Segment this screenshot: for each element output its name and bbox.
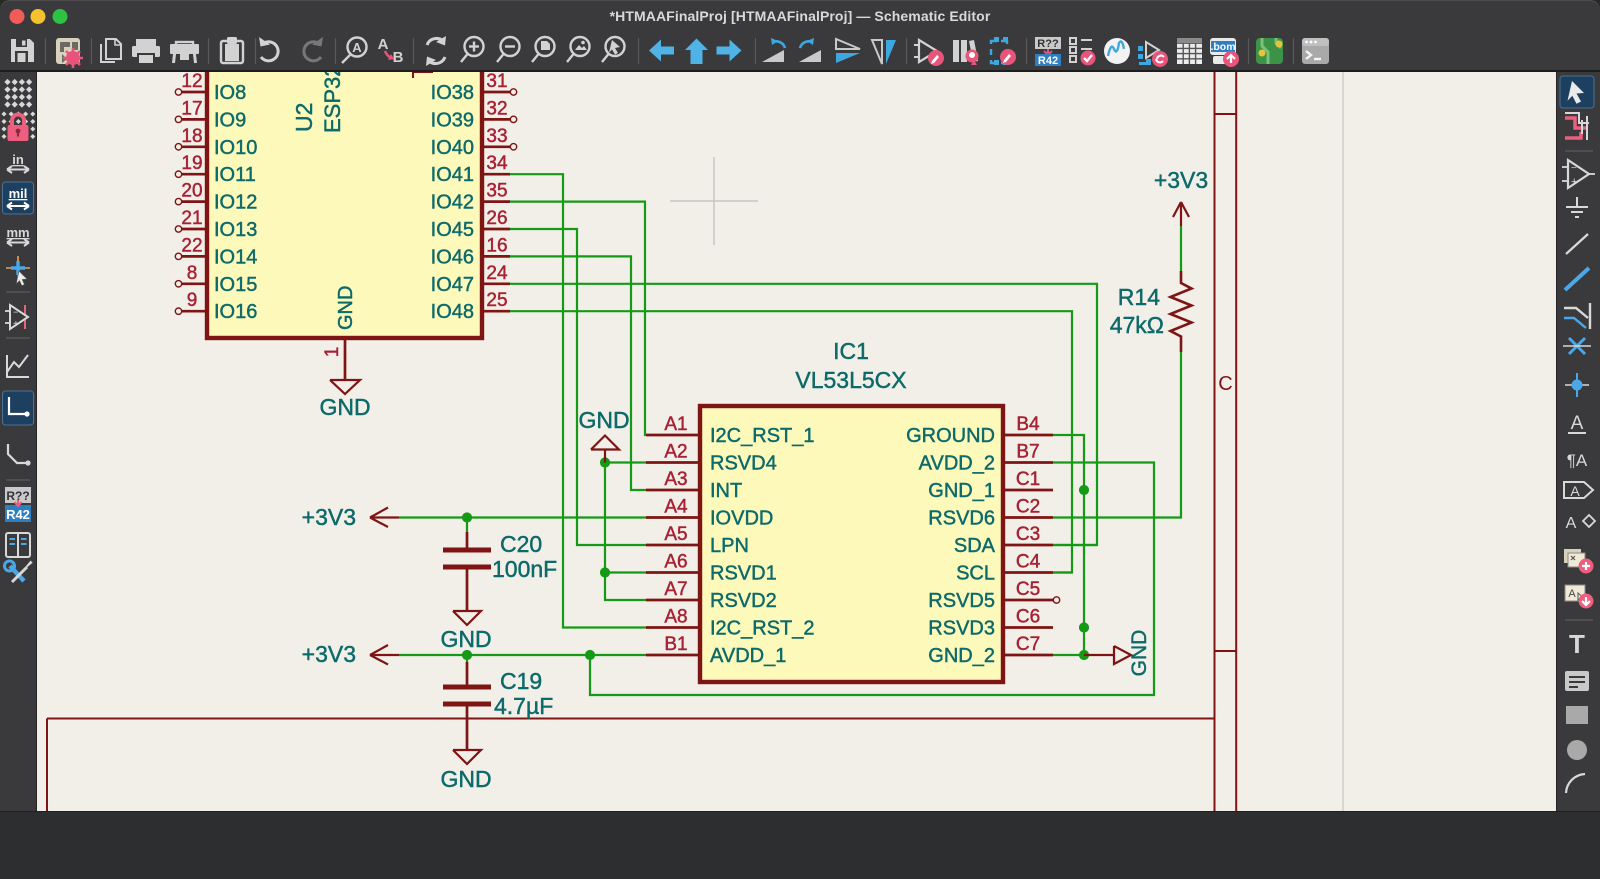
wire RSVD4 stub — [605, 461, 646, 463]
svg-text:A: A — [1566, 515, 1577, 532]
right toolbar — [1556, 72, 1600, 811]
paper right edge — [1342, 72, 1344, 811]
svg-text:GROUND: GROUND — [906, 425, 995, 447]
IC1 left pin A6 RSVD1 — [646, 571, 700, 574]
wire SDA stub — [1053, 544, 1097, 546]
U2 left pin 20 IO12 — [182, 200, 207, 203]
svg-text:RSVD4: RSVD4 — [710, 453, 777, 475]
svg-text:+: + — [1571, 176, 1577, 188]
svg-text:IO45: IO45 — [431, 219, 474, 241]
wire C20 top — [466, 518, 468, 533]
svg-text:IO39: IO39 — [431, 109, 474, 131]
svg-text:mil: mil — [9, 186, 28, 201]
wire junction — [1079, 650, 1089, 660]
svg-text:31: 31 — [486, 72, 507, 92]
svg-text:B: B — [393, 49, 404, 66]
svg-text:R??: R?? — [1037, 38, 1059, 50]
crosshair cursor — [670, 200, 758, 202]
svg-text:mm: mm — [6, 225, 29, 240]
wire junction — [1079, 485, 1089, 495]
svg-text:LPN: LPN — [710, 535, 749, 557]
svg-text:C1: C1 — [1016, 469, 1040, 490]
wire junction — [600, 457, 610, 467]
wire junction — [462, 650, 472, 660]
svg-text:IO40: IO40 — [431, 137, 474, 159]
IC1 right pin C6 RSVD3 — [1003, 626, 1053, 629]
svg-text:IO47: IO47 — [431, 274, 474, 296]
svg-text:C20: C20 — [500, 531, 542, 557]
wire SCL stub — [1053, 571, 1072, 573]
U2 partial pin artifact top — [412, 70, 433, 78]
svg-text:R14: R14 — [1118, 284, 1160, 310]
svg-text:ESP32: ESP32 — [320, 72, 345, 133]
svg-text:T: T — [1569, 629, 1585, 659]
svg-text:19: 19 — [181, 153, 202, 174]
svg-text:U2: U2 — [291, 103, 317, 132]
svg-text:C3: C3 — [1016, 524, 1040, 545]
svg-text:AVDD_1: AVDD_1 — [710, 645, 786, 667]
svg-text:IO9: IO9 — [214, 109, 246, 131]
wire GROUND vertical — [1053, 435, 1084, 655]
svg-text:100nF: 100nF — [492, 556, 557, 582]
wire junction — [1079, 622, 1089, 632]
U2 right pin 31 IO38 — [482, 91, 510, 94]
svg-text:A: A — [378, 36, 389, 53]
svg-text:RSVD1: RSVD1 — [710, 563, 777, 585]
wire IO48 to SCL — [510, 311, 1072, 572]
U2 left pin 9 IO16 — [182, 310, 207, 313]
svg-text:8: 8 — [187, 263, 198, 284]
wire IO47 to SDA — [510, 284, 1097, 545]
svg-text:C7: C7 — [1016, 634, 1040, 655]
svg-text:GND: GND — [1128, 630, 1151, 677]
svg-text:GND: GND — [578, 407, 629, 433]
IC1 right pin C5 RSVD5 — [1003, 599, 1053, 602]
IC1 right pin C7 GND_2 — [1003, 654, 1053, 657]
power +3V3 (left, IOVDD) — [370, 508, 399, 528]
svg-text:¶A: ¶A — [1567, 451, 1588, 470]
svg-text:C2: C2 — [1016, 497, 1040, 518]
svg-text:GND: GND — [335, 286, 357, 330]
capacitor C19 4.7uF — [466, 662, 469, 685]
IC1 right pin B4 GROUND — [1003, 434, 1053, 437]
IC1 left pin A7 RSVD2 — [646, 599, 700, 602]
svg-text:A2: A2 — [664, 442, 687, 463]
IC1 left pin B1 AVDD_1 — [646, 654, 700, 657]
svg-text:A4: A4 — [664, 497, 688, 518]
svg-text:32: 32 — [486, 98, 507, 119]
svg-text:C19: C19 — [500, 668, 542, 694]
power +3V3 (left, AVDD_1) — [370, 645, 399, 665]
left toolbar — [0, 72, 37, 811]
svg-text:20: 20 — [181, 181, 202, 202]
IC1 right pin C1 GND_1 — [1003, 489, 1053, 492]
svg-text:IO41: IO41 — [431, 164, 474, 186]
svg-text:A: A — [1570, 483, 1580, 499]
svg-text:22: 22 — [181, 235, 202, 256]
svg-text:IO48: IO48 — [431, 301, 474, 323]
svg-text:IO8: IO8 — [214, 82, 246, 104]
wire IO42 to I2C_RST_1 — [510, 202, 646, 435]
U2 left pin 18 IO10 — [182, 145, 207, 148]
svg-text:GND_2: GND_2 — [928, 645, 995, 667]
svg-text:IOVDD: IOVDD — [710, 508, 773, 530]
U2 right pin 33 IO40 — [482, 145, 510, 148]
sheet frame bottom border — [47, 718, 1215, 720]
svg-text:A: A — [1568, 588, 1576, 600]
power GND (right of C7) — [1084, 654, 1114, 656]
svg-text:C6: C6 — [1016, 607, 1040, 628]
svg-text:47kΩ: 47kΩ — [1110, 312, 1164, 338]
svg-text:RSVD5: RSVD5 — [928, 590, 995, 612]
svg-text:−: − — [1571, 163, 1577, 174]
svg-text:C4: C4 — [1016, 552, 1041, 573]
svg-text:1: 1 — [322, 347, 343, 358]
svg-text:C: C — [1218, 373, 1232, 395]
IC1 left pin A1 I2C_RST_1 — [646, 434, 700, 437]
U2 left pin 22 IO14 — [182, 255, 207, 258]
U2 right pin 25 IO48 — [482, 310, 510, 313]
wire junction — [600, 567, 610, 577]
resistor R14 47kOhm — [1171, 271, 1192, 352]
svg-text:IO14: IO14 — [214, 246, 257, 268]
top toolbar — [0, 32, 1600, 72]
svg-text:R42: R42 — [6, 507, 30, 522]
svg-text:GND: GND — [440, 626, 491, 652]
svg-text:RSVD2: RSVD2 — [710, 590, 777, 612]
svg-text:A6: A6 — [664, 552, 687, 573]
svg-text:in: in — [12, 152, 24, 167]
svg-text:R42: R42 — [1038, 55, 1058, 67]
title bar — [0, 0, 1600, 32]
IC1 right pin C4 SCL — [1003, 571, 1053, 574]
svg-text:AVDD_2: AVDD_2 — [919, 453, 995, 475]
svg-text:GND_1: GND_1 — [928, 480, 995, 502]
svg-text:IO10: IO10 — [214, 137, 257, 159]
ground symbol below C19 — [453, 750, 481, 764]
wire +3V3 to AVDD_1 — [399, 654, 646, 656]
svg-text:A: A — [1571, 413, 1584, 434]
svg-text:GND: GND — [440, 766, 491, 792]
svg-text:25: 25 — [486, 290, 507, 311]
sheet frame left border — [46, 719, 48, 812]
wire RSVD1 stub — [605, 571, 646, 573]
svg-text:C5: C5 — [1016, 579, 1040, 600]
svg-text:A1: A1 — [664, 414, 687, 435]
IC1 left pin A8 I2C_RST_2 — [646, 626, 700, 629]
svg-text:A: A — [352, 40, 362, 55]
svg-text:IO12: IO12 — [214, 192, 257, 214]
U2 right pin 26 IO45 — [482, 228, 510, 231]
svg-text:IO46: IO46 — [431, 246, 474, 268]
symbol U2 body — [207, 52, 482, 338]
svg-text:−: − — [13, 307, 18, 317]
svg-text:IO16: IO16 — [214, 301, 257, 323]
wire RSVD6 to R14 — [1053, 352, 1181, 518]
schematic canvas — [37, 72, 1556, 811]
svg-text:4.7µF: 4.7µF — [494, 693, 553, 719]
svg-text:17: 17 — [181, 98, 202, 119]
IC1 left pin A5 LPN — [646, 544, 700, 547]
IC1 right pin B7 AVDD_2 — [1003, 461, 1053, 464]
wire IO45 to LPN — [510, 229, 646, 545]
U2 left pin 8 IO15 — [182, 282, 207, 285]
svg-text:IO11: IO11 — [214, 164, 256, 186]
svg-text:+: + — [13, 319, 19, 330]
svg-text:33: 33 — [486, 126, 507, 147]
sheet frame right outer border — [1235, 72, 1237, 811]
svg-text:SDA: SDA — [954, 535, 996, 557]
svg-text:B7: B7 — [1016, 442, 1039, 463]
svg-text:A7: A7 — [664, 579, 687, 600]
svg-text:GND: GND — [319, 394, 370, 420]
svg-text:34: 34 — [486, 153, 508, 174]
svg-text:16: 16 — [486, 235, 507, 256]
U2 right pin 16 IO46 — [482, 255, 510, 258]
svg-text:IO38: IO38 — [431, 82, 474, 104]
wire GND_2 stub — [1053, 654, 1084, 656]
U2 right pin 24 IO47 — [482, 282, 510, 285]
wire C19 top — [466, 655, 468, 662]
IC1 left pin A3 INT — [646, 489, 700, 492]
svg-text:18: 18 — [181, 126, 202, 147]
svg-text:IO15: IO15 — [214, 274, 257, 296]
IC1 left pin A4 IOVDD — [646, 516, 700, 519]
svg-text:12: 12 — [181, 72, 202, 92]
svg-text:+3V3: +3V3 — [302, 504, 356, 530]
IC1 right pin C2 RSVD6 — [1003, 516, 1053, 519]
IC1 left pin A2 RSVD4 — [646, 461, 700, 464]
svg-text:B1: B1 — [664, 634, 687, 655]
svg-text:A3: A3 — [664, 469, 687, 490]
U2 right pin 34 IO41 — [482, 173, 510, 176]
frame row tick C/D — [1215, 650, 1237, 652]
frame row tick B/C — [1215, 113, 1237, 115]
wire AVDD_2 to AVDD_1 — [590, 463, 1154, 696]
svg-text:21: 21 — [181, 208, 202, 229]
wire IO46 to INT — [510, 256, 646, 490]
svg-text:A8: A8 — [664, 607, 687, 628]
wire GND net vertical — [605, 463, 646, 601]
svg-text:SCL: SCL — [956, 563, 995, 585]
svg-text:VL53L5CX: VL53L5CX — [795, 367, 906, 393]
svg-text:+3V3: +3V3 — [1154, 167, 1208, 193]
svg-text:I2C_RST_1: I2C_RST_1 — [710, 425, 815, 447]
U2 right pin 35 IO42 — [482, 200, 510, 203]
svg-text:IO13: IO13 — [214, 219, 257, 241]
sheet frame right inner border — [1214, 72, 1216, 811]
ground symbol below U2 — [330, 380, 360, 394]
U2 bottom pin 1 GND — [344, 338, 347, 380]
IC1 right pin C3 SDA — [1003, 544, 1053, 547]
U2 left pin 12 IO8 — [182, 91, 207, 94]
svg-text:RSVD6: RSVD6 — [928, 508, 995, 530]
wire IO41 to I2C_RST_2 — [510, 174, 646, 627]
svg-text:9: 9 — [187, 290, 198, 311]
svg-text:B4: B4 — [1016, 414, 1040, 435]
wire +3V3 to IOVDD — [399, 516, 646, 518]
status bar — [0, 811, 1600, 879]
ground symbol below C20 — [453, 611, 481, 625]
svg-text:26: 26 — [486, 208, 507, 229]
U2 right pin 32 IO39 — [482, 118, 510, 121]
svg-text:24: 24 — [486, 263, 508, 284]
power +3V3 (top right, above R14) — [1173, 202, 1189, 226]
svg-text:A5: A5 — [664, 524, 687, 545]
svg-text:IO42: IO42 — [431, 192, 474, 214]
svg-text:IC1: IC1 — [833, 338, 869, 364]
wire +3V3 to R14 — [1180, 226, 1182, 271]
symbol IC1 body — [700, 406, 1003, 682]
svg-text:I2C_RST_2: I2C_RST_2 — [710, 618, 815, 640]
wire junction — [585, 650, 595, 660]
svg-text:INT: INT — [710, 480, 742, 502]
power GND (near A2) — [604, 450, 606, 463]
capacitor C20 100nF — [466, 532, 469, 548]
U2 left pin 19 IO11 — [182, 173, 207, 176]
U2 left pin 21 IO13 — [182, 228, 207, 231]
wire junction — [462, 512, 472, 522]
U2 left pin 17 IO9 — [182, 118, 207, 121]
svg-text:RSVD3: RSVD3 — [928, 618, 995, 640]
svg-text:+3V3: +3V3 — [302, 641, 356, 667]
svg-text:35: 35 — [486, 181, 507, 202]
